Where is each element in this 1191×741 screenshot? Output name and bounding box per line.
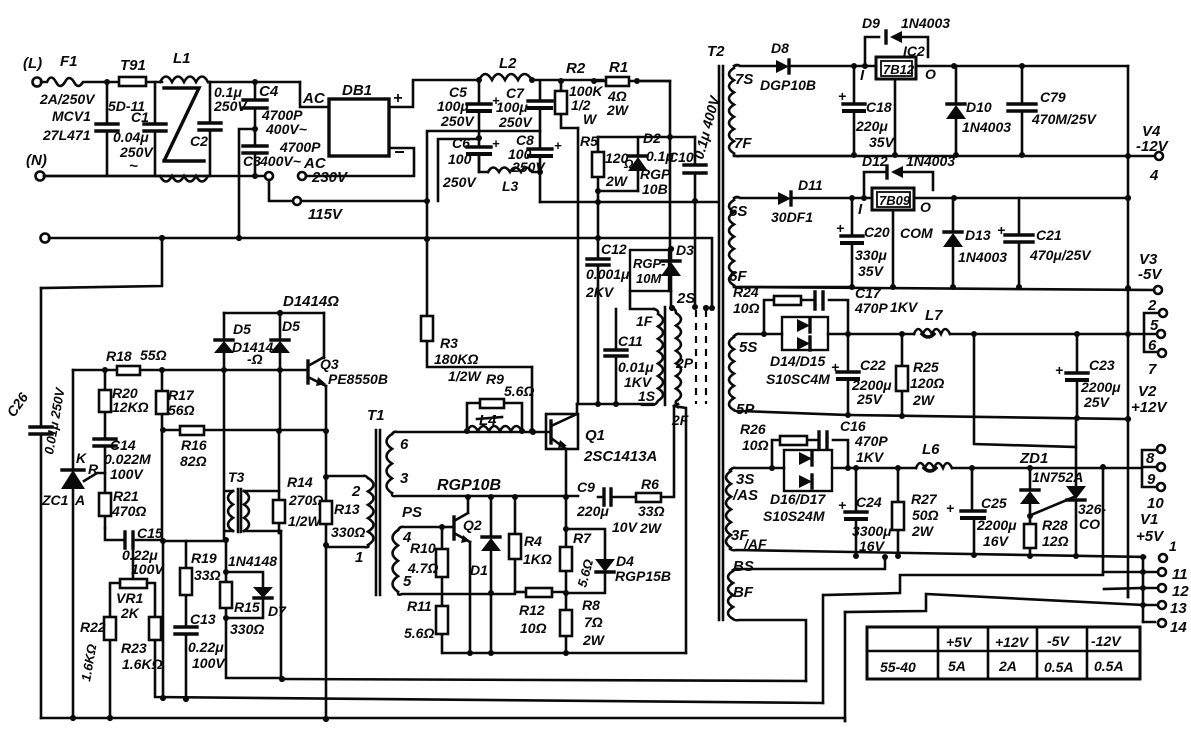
- svg-text:82Ω: 82Ω: [180, 453, 207, 469]
- svg-text:-5V: -5V: [1047, 633, 1070, 649]
- svg-text:250V: 250V: [442, 174, 477, 190]
- svg-text:50Ω: 50Ω: [912, 507, 939, 523]
- svg-text:16V: 16V: [983, 533, 1010, 549]
- svg-text:0.001μ: 0.001μ: [586, 266, 630, 282]
- diode D4: [595, 559, 615, 572]
- C15 wire: [105, 528, 163, 540]
- capacitor C14: [94, 439, 116, 446]
- svg-text:330Ω: 330Ω: [331, 524, 365, 540]
- R1 to D2 node: [637, 81, 670, 249]
- svg-text:2W: 2W: [911, 523, 935, 539]
- Q1 collector: [576, 404, 579, 414]
- svg-text:Q3: Q3: [320, 356, 339, 372]
- svg-text:1/2W: 1/2W: [448, 368, 482, 384]
- inductor L3: [479, 156, 488, 172]
- diode pair D14/D15 box: [782, 317, 828, 350]
- svg-text:2W: 2W: [912, 392, 936, 408]
- svg-text:55-40: 55-40: [880, 659, 916, 675]
- resistor R19 33: [185, 541, 188, 699]
- svg-text:33Ω: 33Ω: [638, 503, 665, 519]
- svg-text:330Ω: 330Ω: [230, 621, 264, 637]
- svg-text:+: +: [836, 220, 844, 236]
- diode D10: [955, 66, 958, 155]
- svg-text:0.5A: 0.5A: [1094, 658, 1124, 674]
- svg-text:35V: 35V: [869, 134, 896, 150]
- svg-text:L7: L7: [925, 307, 943, 324]
- diode D13: [952, 198, 955, 287]
- thermistor T91: [119, 77, 146, 86]
- svg-text:Q2: Q2: [463, 517, 482, 533]
- svg-text:D9: D9: [862, 15, 880, 31]
- diode D5': [277, 310, 283, 316]
- svg-text:C18: C18: [866, 99, 892, 115]
- T2 primary core: [664, 307, 667, 405]
- svg-text:250V: 250V: [440, 113, 475, 129]
- svg-text:IC2: IC2: [903, 43, 925, 59]
- bottom wire y653: [443, 652, 686, 655]
- VR1 left to R22: [110, 583, 120, 718]
- svg-text:R16: R16: [181, 437, 207, 453]
- svg-text:RGP: RGP: [640, 166, 671, 182]
- svg-text:F1: F1: [60, 53, 78, 70]
- svg-text:-12V: -12V: [1136, 138, 1170, 155]
- svg-text:13: 13: [1170, 600, 1187, 617]
- svg-text:+5V: +5V: [1136, 528, 1165, 545]
- resistor R14: [278, 431, 281, 533]
- svg-text:BF: BF: [733, 584, 754, 601]
- svg-text:A: A: [74, 492, 85, 508]
- capacitor C8: [539, 131, 542, 172]
- svg-text:R13: R13: [334, 501, 360, 517]
- svg-text:R25: R25: [913, 359, 939, 375]
- resistor R9: [464, 428, 470, 434]
- VR1 pot: [132, 540, 135, 579]
- svg-text:C2: C2: [190, 133, 208, 149]
- svg-text:D12: D12: [862, 153, 888, 169]
- resistor R11: [436, 606, 448, 634]
- svg-text:C13: C13: [190, 611, 216, 627]
- capacitor C23: [1076, 334, 1079, 417]
- svg-text:C17: C17: [855, 285, 882, 301]
- svg-text:7B09: 7B09: [879, 193, 911, 208]
- svg-text:+: +: [492, 136, 500, 151]
- Q1 emitter down: [565, 449, 568, 497]
- svg-text:1N4003: 1N4003: [901, 15, 950, 31]
- svg-text:5.6Ω: 5.6Ω: [404, 625, 434, 641]
- svg-text:R15: R15: [234, 599, 260, 615]
- svg-text:35V: 35V: [858, 263, 885, 279]
- svg-text:25V: 25V: [856, 391, 884, 407]
- svg-text:7Ω: 7Ω: [584, 614, 603, 630]
- svg-text:/AS: /AS: [732, 487, 758, 504]
- capacitor C11: [605, 350, 627, 356]
- +5V terminals 8 9 10: [1142, 450, 1157, 487]
- svg-text:D3: D3: [676, 242, 694, 258]
- svg-text:33Ω: 33Ω: [194, 567, 221, 583]
- svg-text:56Ω: 56Ω: [168, 402, 195, 418]
- svg-text:7F: 7F: [734, 135, 752, 152]
- resistor R27: [897, 468, 900, 556]
- svg-text:R11: R11: [407, 598, 432, 614]
- svg-text:100: 100: [448, 151, 472, 167]
- svg-text:C23: C23: [1089, 357, 1115, 373]
- svg-text:R23: R23: [121, 640, 147, 656]
- VR1 right to R23: [147, 583, 823, 703]
- svg-text:11: 11: [1172, 566, 1188, 583]
- svg-text:R26: R26: [740, 421, 766, 437]
- svg-text:+: +: [838, 497, 846, 513]
- svg-text:400V~: 400V~: [265, 121, 307, 137]
- resistor R10: [441, 527, 444, 653]
- svg-text:CO: CO: [1079, 516, 1100, 532]
- svg-text:R14: R14: [287, 474, 313, 490]
- svg-text:2W: 2W: [582, 632, 606, 648]
- svg-text:T2: T2: [707, 43, 725, 60]
- R2 drop to Q1 collector: [577, 128, 580, 404]
- wire top AC: [107, 81, 162, 84]
- resistor R12: [515, 591, 526, 594]
- transistor Q3 PE8550B: [323, 313, 326, 358]
- svg-text:3: 3: [400, 470, 409, 487]
- IC 7B09 regulator: [872, 188, 914, 210]
- svg-text:D1: D1: [470, 562, 488, 578]
- wire to L7: [828, 333, 914, 336]
- svg-text:2S: 2S: [676, 290, 695, 307]
- svg-text:0.022M: 0.022M: [104, 451, 151, 467]
- svg-text:2K: 2K: [120, 605, 140, 621]
- svg-text:220μ: 220μ: [576, 503, 609, 519]
- svg-text:30DF1: 30DF1: [771, 209, 813, 225]
- svg-text:R8: R8: [582, 597, 600, 613]
- D5 top wire: [224, 312, 324, 315]
- svg-text:470M/25V: 470M/25V: [1031, 111, 1097, 127]
- svg-text:115V: 115V: [308, 206, 344, 223]
- svg-text:470P: 470P: [854, 300, 888, 316]
- diode D7: [253, 587, 273, 598]
- svg-text:+: +: [554, 138, 562, 153]
- svg-text:−: −: [394, 142, 405, 162]
- svg-text:270Ω: 270Ω: [288, 492, 323, 508]
- svg-text:1/2W: 1/2W: [288, 513, 322, 529]
- capacitor C18: [853, 66, 856, 155]
- svg-text:220μ: 220μ: [855, 118, 888, 134]
- svg-text:C3: C3: [243, 153, 261, 169]
- svg-text:250V: 250V: [498, 114, 533, 130]
- wire top rail into bridge: [300, 82, 329, 107]
- svg-text:D8: D8: [771, 40, 789, 56]
- bridge DB1: [329, 99, 389, 156]
- +5V output down wire: [824, 467, 1103, 595]
- svg-text:55Ω: 55Ω: [140, 347, 167, 363]
- svg-text:C24: C24: [856, 494, 882, 510]
- svg-text:12: 12: [1172, 583, 1189, 600]
- svg-text:470Ω: 470Ω: [111, 503, 146, 519]
- resistor R2: [558, 78, 564, 84]
- svg-text:400V~: 400V~: [259, 153, 301, 169]
- resistor R7: [563, 526, 569, 532]
- capacitor C1b: [154, 82, 157, 176]
- ZD1 loop from +12V: [974, 334, 1076, 447]
- svg-text:C6: C6: [452, 135, 470, 151]
- svg-text:7B12: 7B12: [883, 62, 915, 77]
- svg-text:COM: COM: [900, 225, 933, 241]
- capacitor C17: [815, 292, 823, 309]
- svg-text:PE8550B: PE8550B: [328, 371, 388, 387]
- terminal 1: [1159, 554, 1167, 562]
- svg-text:R28: R28: [1042, 517, 1068, 533]
- svg-text:O: O: [925, 66, 936, 82]
- svg-text:S10SC4M: S10SC4M: [766, 371, 830, 387]
- svg-text:R3: R3: [440, 335, 458, 351]
- svg-text:2A/250V: 2A/250V: [39, 91, 96, 107]
- svg-text:C22: C22: [860, 357, 886, 373]
- R3 wire drop to base: [531, 367, 534, 431]
- resistor R24: [764, 300, 848, 334]
- svg-text:1: 1: [355, 549, 363, 566]
- svg-text:3300μ: 3300μ: [852, 523, 892, 539]
- svg-text:C16: C16: [840, 418, 866, 434]
- svg-text:K: K: [76, 450, 87, 466]
- 1F winding top lead: [616, 291, 654, 350]
- svg-text:ZD1: ZD1: [1019, 450, 1048, 467]
- svg-text:D2: D2: [643, 130, 661, 146]
- svg-text:C25: C25: [981, 495, 1007, 511]
- resistor R13: [320, 501, 332, 524]
- svg-text:12KΩ: 12KΩ: [112, 399, 149, 415]
- svg-text:L2: L2: [499, 55, 517, 72]
- capacitor C6: [476, 135, 482, 141]
- fuse F1: [41, 78, 107, 87]
- svg-text:2: 2: [351, 483, 361, 500]
- svg-text:7S: 7S: [735, 71, 753, 88]
- svg-text:10M: 10M: [636, 271, 662, 286]
- capacitor C20: [851, 198, 854, 287]
- svg-text:100V: 100V: [110, 466, 144, 482]
- svg-text:+12V: +12V: [1131, 399, 1168, 416]
- svg-text:R7: R7: [573, 530, 592, 546]
- wire to C4: [252, 79, 258, 85]
- resistor R18: [117, 366, 140, 375]
- svg-text:2: 2: [1147, 297, 1157, 314]
- capacitor C5: [476, 77, 482, 83]
- T1 winding 2-1: [368, 478, 374, 545]
- svg-text:1N752A: 1N752A: [1032, 469, 1083, 485]
- resistor R15: [220, 582, 232, 608]
- svg-text:C12: C12: [601, 241, 627, 257]
- 115V riser to cap midpoints: [427, 131, 540, 201]
- bridge + output: [389, 80, 479, 107]
- diode D3: [668, 246, 674, 252]
- svg-text:1N4148: 1N4148: [228, 553, 277, 569]
- svg-text:1N4003: 1N4003: [962, 119, 1011, 135]
- svg-text:9: 9: [1147, 471, 1156, 488]
- bus 698 segment right: [822, 595, 825, 703]
- svg-text:1.6KΩ: 1.6KΩ: [122, 656, 163, 672]
- svg-text:470μ/25V: 470μ/25V: [1029, 247, 1092, 263]
- resistor R26: [772, 440, 848, 468]
- svg-text:C20: C20: [864, 224, 890, 240]
- bus y718: [41, 718, 845, 721]
- terminals 11-14: [1142, 557, 1145, 622]
- svg-text:R21: R21: [113, 488, 139, 504]
- svg-text:R9: R9: [486, 371, 504, 387]
- resistor R8: [563, 590, 569, 596]
- terminal (N): [36, 172, 45, 181]
- snubber top wire: [598, 136, 695, 139]
- svg-text:120Ω: 120Ω: [910, 375, 944, 391]
- svg-text:25V: 25V: [1083, 394, 1111, 410]
- capacitor C2: [209, 82, 212, 176]
- svg-text:10Ω: 10Ω: [742, 437, 769, 453]
- svg-text:2200μ: 2200μ: [976, 517, 1017, 533]
- com pin: [892, 210, 895, 287]
- svg-text:6: 6: [1148, 337, 1157, 354]
- wire bottom AC: [44, 175, 264, 178]
- svg-text:1F: 1F: [636, 313, 653, 329]
- svg-text:100V: 100V: [131, 561, 165, 577]
- svg-text:R5: R5: [580, 133, 598, 149]
- diode D (ZD1 pair): [1029, 468, 1032, 556]
- svg-text:1S: 1S: [638, 388, 656, 404]
- negative rail: [540, 201, 718, 204]
- svg-text:W: W: [583, 111, 598, 127]
- svg-text:2P: 2P: [675, 355, 694, 371]
- T1 winding 6-3: [387, 434, 393, 493]
- svg-text:C9: C9: [577, 479, 595, 495]
- capacitor C3: [243, 146, 267, 153]
- resistor R1: [594, 80, 606, 83]
- svg-text:1KΩ: 1KΩ: [523, 551, 552, 567]
- svg-text:ZC1: ZC1: [41, 492, 69, 508]
- svg-text:0.5A: 0.5A: [1044, 659, 1074, 675]
- +12V bottom wire: [848, 415, 1128, 419]
- resistor R16: [163, 429, 326, 432]
- svg-text:2SC1413A: 2SC1413A: [583, 448, 657, 465]
- svg-text:10B: 10B: [642, 181, 668, 197]
- svg-text:C4: C4: [259, 83, 279, 100]
- svg-text:+12V: +12V: [995, 634, 1030, 650]
- diode pair D16/D17 box: [784, 450, 832, 491]
- svg-text:R6: R6: [641, 476, 659, 492]
- diode D8: [776, 60, 789, 73]
- svg-text:L3: L3: [502, 178, 519, 194]
- svg-text:180KΩ: 180KΩ: [434, 351, 478, 367]
- svg-text:27L471: 27L471: [42, 127, 91, 143]
- svg-text:D10: D10: [966, 99, 992, 115]
- IC2 com pin: [894, 79, 897, 155]
- capacitor C26: [40, 288, 43, 718]
- svg-text:R27: R27: [911, 491, 938, 507]
- D9 bypass: [865, 37, 928, 66]
- svg-text:-12V: -12V: [1091, 633, 1122, 649]
- enclosure right drop: [674, 406, 686, 653]
- shield dashed lines: [695, 310, 697, 404]
- svg-text:D7: D7: [268, 603, 287, 619]
- svg-text:C11: C11: [618, 333, 643, 349]
- svg-text:Q1: Q1: [585, 427, 605, 444]
- svg-text:D1414Ω: D1414Ω: [283, 293, 339, 310]
- svg-text:16V: 16V: [859, 538, 886, 554]
- svg-text:R1: R1: [609, 59, 628, 76]
- svg-text:100μ: 100μ: [437, 98, 469, 114]
- bus y238: [41, 234, 50, 243]
- resistor R4: [514, 497, 517, 592]
- svg-text:+: +: [946, 500, 954, 516]
- svg-text:1: 1: [1169, 538, 1177, 554]
- svg-text:D4: D4: [616, 553, 634, 569]
- bus y370: [72, 370, 75, 468]
- svg-text:4: 4: [1149, 167, 1159, 184]
- svg-text:DGP10B: DGP10B: [760, 77, 816, 93]
- svg-text:0.22μ: 0.22μ: [188, 639, 224, 655]
- svg-text:R12: R12: [519, 602, 545, 618]
- transistor Q2: [439, 524, 445, 530]
- IC2 7B12 regulator: [876, 57, 916, 79]
- resistor R6: [636, 493, 661, 502]
- svg-text:RGP15B: RGP15B: [615, 568, 671, 584]
- svg-text:D14/D15: D14/D15: [770, 353, 825, 369]
- svg-text:R10: R10: [410, 540, 436, 556]
- svg-text:4.7Ω: 4.7Ω: [407, 560, 438, 576]
- svg-text:+: +: [1055, 362, 1063, 378]
- bus y698: [185, 626, 187, 628]
- capacitor C24: [855, 468, 858, 556]
- R17 chain vertical: [162, 370, 163, 698]
- resistor R20: [104, 370, 107, 528]
- svg-text:1KV: 1KV: [856, 449, 885, 465]
- svg-text:R19: R19: [191, 550, 217, 566]
- svg-text:2W: 2W: [606, 102, 630, 118]
- capacitor C22: [847, 334, 850, 415]
- svg-text:2200μ: 2200μ: [1080, 379, 1121, 395]
- svg-text:1N4003: 1N4003: [958, 249, 1007, 265]
- svg-text:~: ~: [129, 158, 138, 175]
- snubber bottom wire: [595, 188, 601, 194]
- svg-text:D11: D11: [798, 177, 823, 193]
- diode D5 line: [224, 313, 226, 572]
- svg-text:DB1: DB1: [342, 82, 372, 99]
- bottom wire y404: [577, 403, 653, 406]
- bridge - output: [306, 148, 414, 176]
- svg-text:BS: BS: [733, 558, 754, 575]
- svg-text:5A: 5A: [948, 658, 966, 674]
- svg-text:-5V: -5V: [1138, 266, 1163, 283]
- terminal wires: [1103, 571, 1143, 574]
- svg-text:V1: V1: [1140, 511, 1158, 528]
- bus 718 right: [844, 612, 847, 721]
- C26 riser: [41, 238, 162, 288]
- svg-text:(N): (N): [26, 152, 47, 169]
- resistor R28: [1024, 524, 1036, 548]
- svg-text:MCV1: MCV1: [52, 108, 91, 124]
- svg-text:5S: 5S: [739, 339, 757, 356]
- 115V select: [269, 180, 293, 201]
- svg-text:12Ω: 12Ω: [1042, 533, 1069, 549]
- svg-text:D16/D17: D16/D17: [770, 491, 826, 507]
- svg-text:+: +: [393, 90, 402, 107]
- wire to L6: [832, 467, 916, 470]
- svg-text:V2: V2: [1138, 383, 1157, 400]
- svg-text:2F: 2F: [671, 412, 689, 428]
- -5V output: [734, 287, 1154, 290]
- node and branch to mid: [252, 126, 258, 132]
- svg-text:RGP10B: RGP10B: [437, 477, 501, 494]
- T1S winding: [642, 309, 663, 405]
- diode D11: [778, 192, 791, 205]
- inductor L4: [467, 426, 522, 431]
- svg-text:2KV: 2KV: [585, 284, 615, 300]
- svg-text:230V: 230V: [311, 169, 349, 186]
